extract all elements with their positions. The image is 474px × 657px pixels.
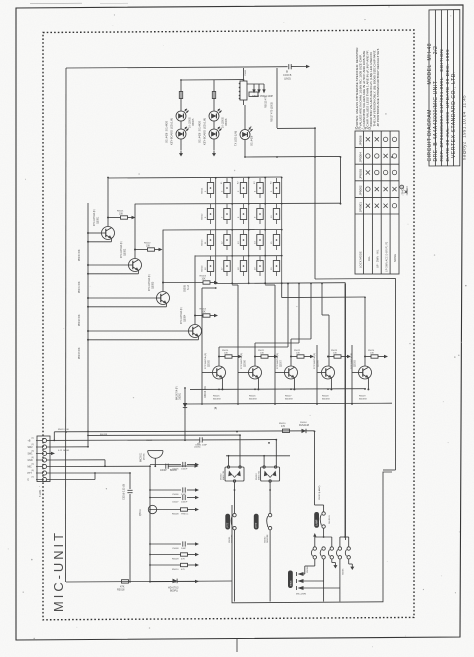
- wire base Q5003: [88, 297, 157, 299]
- resistor R5018 on bottom rail: [122, 580, 129, 583]
- wire pin5 to mic: [47, 465, 150, 467]
- switch cluster 1 contact x323.6: [322, 547, 325, 550]
- wire cluster 1 top bus: [315, 536, 332, 538]
- switch cluster 1 contact x314.8: [313, 547, 316, 550]
- diode arrow 1 bottom: [298, 572, 304, 576]
- fold tick mark bottom: [236, 639, 238, 653]
- key switch SW5030: [273, 261, 279, 272]
- wire vertical rail x150: [149, 466, 151, 582]
- wire emitter Q5004: [197, 336, 199, 340]
- diode branch bottom: [150, 581, 173, 583]
- wire jog under table: [315, 277, 396, 280]
- wire key matrix row bus 4: [195, 255, 282, 257]
- transistor Q5009 DTC114YUA: [359, 366, 372, 379]
- LED D5007 KEY-BOARD LED: [176, 129, 186, 139]
- wire dual diode feeds: [239, 435, 241, 466]
- key switch SW5029: [257, 261, 263, 272]
- transistor Q5007 DTC114YUA: [285, 366, 298, 379]
- wire pin2 to base bus: [47, 446, 88, 448]
- wire TX LED feed: [243, 100, 245, 105]
- ground LED chain 2: [213, 151, 215, 154]
- resistor R5017b on wire: [283, 429, 290, 432]
- wire emitter bus 1: [190, 388, 366, 391]
- wire branch R5010 470: [150, 564, 181, 566]
- key switch SW5017: [224, 209, 230, 220]
- wire top supply rail B: [66, 67, 288, 68]
- connector pin 7: [42, 477, 46, 481]
- dual diode D5003 MA3X704: [261, 467, 280, 481]
- wire R5017 drop to lower right: [314, 128, 316, 279]
- wire emitter Q5007: [293, 378, 295, 389]
- wire matrix column route 1: [287, 284, 289, 348]
- wire TX LED to bus: [244, 139, 246, 157]
- connector J5002 top: [240, 81, 247, 100]
- key switch SW5013: [240, 183, 246, 194]
- wire matrix column route 3: [310, 284, 312, 340]
- switch S5003 LAMP: [322, 512, 325, 515]
- label box MR-DWN: [288, 571, 293, 589]
- label box PTT B: [254, 514, 259, 530]
- wire branch to arrow bottom: [177, 580, 196, 582]
- connector pin 1: [42, 438, 46, 442]
- wire branch C5005 1000P: [150, 464, 181, 466]
- wire branch R5008 TR5CC: [150, 509, 181, 511]
- wire emitter Q5002: [137, 270, 139, 274]
- wire emitter Q5001: [110, 238, 112, 242]
- scan artifact top edge: [30, 2, 82, 4]
- transistor Q5008 DTC114YUA: [322, 366, 335, 379]
- key switch SW5012: [224, 183, 230, 194]
- jumper table grid: [355, 131, 399, 274]
- diode D5001 MA3X704: [183, 403, 187, 408]
- switch cluster 1 contact x331.8: [330, 547, 333, 550]
- ground cluster 2: [351, 564, 353, 567]
- transistor Q5003 DTC114YUA: [157, 292, 170, 305]
- resistor R5006 LED chain 2: [212, 92, 215, 99]
- wire base Q5002: [88, 264, 129, 266]
- wire collector Q5001: [107, 178, 109, 227]
- key switch SW5020: [273, 209, 279, 220]
- wire vertical rail x130 with capacitor: [129, 486, 131, 489]
- wire collector Q5002: [134, 204, 136, 259]
- key switch SW5016: [207, 209, 213, 220]
- transistor Q5011 mic amp: [148, 505, 156, 513]
- key switch SW5024: [257, 235, 263, 246]
- resistor R5004 branch: [195, 315, 203, 317]
- capacitor block C5012: [249, 92, 258, 96]
- ground cluster 1: [334, 563, 336, 566]
- transistor Q5004 DTC114YUA: [189, 325, 202, 338]
- LED D5006 KEY-BOARD LED: [176, 111, 186, 121]
- key switch SW5027: [224, 261, 230, 272]
- wire key matrix row bus 1: [108, 177, 282, 178]
- key switch SW5018: [240, 209, 246, 220]
- dashed drawing border: [43, 30, 414, 620]
- dual diode D5002 MA3X704: [225, 467, 244, 481]
- wire key matrix row bus 3: [163, 229, 282, 232]
- key switch SW5014: [257, 183, 263, 194]
- switch cluster 2 contact x348.7: [347, 547, 350, 550]
- wire base Q5001: [88, 232, 102, 234]
- wire matrix column route 4: [321, 284, 323, 316]
- LED D5008 KEY-BOARD LED: [209, 111, 219, 121]
- wire pin3 net arrow: [47, 452, 52, 454]
- transistor Q5001 DTC114YUA: [102, 227, 115, 240]
- resistor R5024 branch: [365, 356, 371, 358]
- jumper table legend: [400, 185, 404, 189]
- switch S5001 PTT contact B: [268, 513, 271, 516]
- wire PTT outputs down: [234, 530, 236, 602]
- wire emitter Q5005: [221, 378, 223, 389]
- capacitor C5011: [199, 437, 201, 442]
- wire lamp feed: [314, 432, 316, 506]
- wire y431 long: [54, 431, 314, 432]
- transistor Q5006 DTC114YUA: [249, 366, 262, 379]
- wire base feed verticals: [201, 288, 203, 404]
- wire collector Q5003: [162, 230, 164, 292]
- wire matrix bus to cluster vertical: [345, 283, 347, 540]
- LED D5009 KEY-BOARD LED: [209, 129, 219, 139]
- wire emitter Q5009: [367, 378, 369, 389]
- resistor R5001 branch: [108, 217, 121, 219]
- key switch SW5026: [207, 261, 213, 272]
- wire base Q5004: [88, 330, 189, 332]
- label box PTT A: [225, 514, 230, 530]
- wire bottom rail: [66, 581, 232, 582]
- capacitor C5004 on mic line: [165, 464, 167, 469]
- diode arrow 2 bottom: [298, 579, 304, 583]
- wire key matrix column drops: [215, 178, 217, 284]
- wire pin4 route: [47, 459, 105, 461]
- transistor Q5005 DTC114YUA: [213, 366, 226, 379]
- wire branch C5008 100P: [150, 543, 181, 545]
- diode arrow 3 bottom: [298, 586, 304, 590]
- wire col5 to Q5009 collector: [281, 284, 283, 298]
- wire pin1 jog up: [53, 432, 55, 441]
- key switch SW5015: [273, 183, 279, 194]
- connector pin 3: [42, 451, 46, 455]
- key switch SW5019: [257, 209, 263, 220]
- wire branch C5007 1000P: [150, 497, 181, 499]
- resistor R5005 LED chain 1: [179, 92, 182, 99]
- wire keyboard LED chain 1: [180, 80, 182, 112]
- key switch SW5023: [240, 235, 246, 246]
- wire base Q5008: [317, 372, 322, 374]
- key switch SW5021: [207, 235, 213, 246]
- wire base Q5006: [238, 372, 249, 374]
- wire left drop with diode: [184, 388, 186, 440]
- connector pin 2: [42, 445, 46, 449]
- wire bottom-center unit box: [232, 472, 392, 603]
- capacitor C5013 array arrows: [253, 84, 255, 90]
- wire pin6 route: [47, 472, 130, 474]
- diode D5003 on bottom rail: [173, 579, 178, 584]
- switch cluster 2 contact x339.9: [338, 547, 341, 550]
- wire R5017 branch: [276, 68, 278, 128]
- junction dots: [107, 177, 109, 179]
- transistor Q5002 DTC114YUA: [129, 259, 142, 272]
- wire dual diode outputs: [234, 482, 236, 513]
- wire cluster 2 outputs: [339, 559, 341, 602]
- scan noise overlay: [0, 0, 1, 1]
- switch S5001 PTT contact A: [233, 513, 236, 516]
- wire TX row link vertical: [340, 157, 342, 204]
- wire cluster 2 top bus: [340, 536, 349, 538]
- wire emitter Q5006: [257, 378, 259, 389]
- wire LED chains top connection: [181, 79, 244, 81]
- wire base Q5009: [352, 372, 359, 374]
- key switch SW5022: [224, 235, 230, 246]
- wire emitter Q5008: [330, 378, 332, 389]
- wire emitter Q5003: [165, 303, 167, 307]
- resistor R5022 branch: [291, 356, 297, 358]
- resistor R5021 branch: [255, 356, 261, 358]
- key switch SW5028: [240, 261, 246, 272]
- LED D5005 TX LED: [240, 130, 250, 140]
- title block frame: [429, 10, 460, 166]
- wire y435 to diode A: [88, 434, 240, 436]
- label box LAMP: [314, 512, 319, 528]
- wire pin7 route: [47, 479, 95, 481]
- wire branch R5009 47K: [150, 554, 181, 556]
- key switch SW5011: [207, 183, 213, 194]
- wire left frame bus: [65, 68, 68, 582]
- wire key matrix row bus 2: [135, 202, 341, 205]
- microphone MIC5001: [148, 450, 163, 452]
- resistor R5023 branch: [328, 356, 334, 358]
- wire collector Q5004: [194, 255, 196, 324]
- resistor R5003 branch: [163, 282, 203, 284]
- wire emitter bus 2: [185, 402, 392, 405]
- key switch SW5025: [273, 235, 279, 246]
- wire base Q5005: [202, 372, 213, 374]
- wire filter feeds: [247, 83, 264, 85]
- ground LED chain 1: [180, 151, 182, 154]
- wire matrix column route 2: [298, 284, 300, 344]
- wire branch C5006 100P: [150, 489, 181, 491]
- connector pin 4: [42, 458, 46, 462]
- connector J5001: [37, 436, 50, 482]
- net arrow B: [306, 65, 310, 68]
- diode D5004 RLS4148: [302, 429, 307, 433]
- wire cluster outputs: [314, 559, 316, 566]
- capacitor C5015 on B rail: [288, 64, 290, 69]
- wire base bus left vertical: [87, 203, 89, 447]
- connector pin 5: [42, 464, 46, 468]
- connector pin 6: [42, 471, 46, 475]
- resistor R5002 branch: [135, 249, 148, 251]
- wire y440 pin1 line: [47, 439, 200, 442]
- wire keyboard LED chain 2: [213, 80, 215, 112]
- resistor R5020 branch: [219, 356, 225, 358]
- wire base Q5007: [275, 372, 285, 374]
